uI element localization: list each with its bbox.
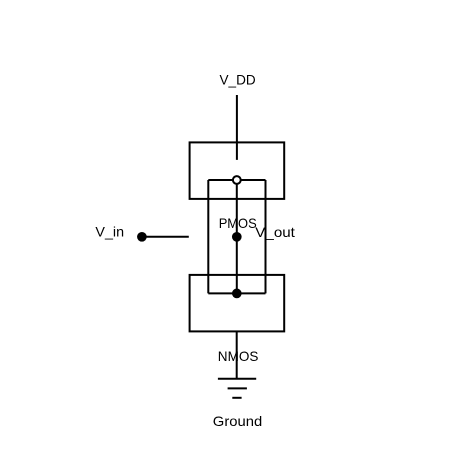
wire V_in (142, 236, 189, 238)
svg-text:Ground: Ground (213, 413, 262, 429)
transistor NMOS body (190, 275, 285, 332)
wire NMOS to ground (236, 331, 238, 378)
wire gate top bar (208, 179, 265, 181)
ground symbol (218, 379, 256, 398)
transistor PMOS body (190, 142, 285, 199)
wire left gate rail (207, 180, 209, 293)
node V_in terminal dot (137, 232, 147, 242)
svg-text:NMOS: NMOS (218, 348, 259, 364)
wire gate bottom bar (208, 292, 265, 294)
wire center line PMOS drain to NMOS (236, 180, 238, 293)
svg-text:V_in: V_in (95, 223, 124, 239)
wire right gate rail (265, 180, 267, 293)
svg-text:V_out: V_out (255, 224, 295, 240)
PMOS gate inversion bubble (233, 176, 241, 184)
node V_out junction dot (232, 232, 242, 242)
node NMOS gate junction dot (232, 289, 242, 299)
svg-text:PMOS: PMOS (219, 215, 257, 231)
wire from V_DD to PMOS (236, 95, 238, 160)
svg-text:V_DD: V_DD (220, 71, 256, 87)
